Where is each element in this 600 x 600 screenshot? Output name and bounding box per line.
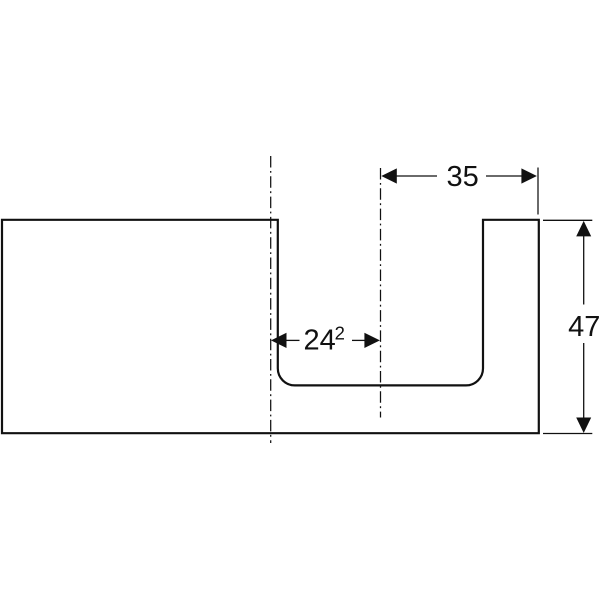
svg-text:35: 35 (446, 161, 478, 193)
svg-text:47: 47 (568, 311, 600, 343)
svg-text:24: 24 (304, 325, 336, 357)
svg-text:2: 2 (335, 323, 345, 344)
